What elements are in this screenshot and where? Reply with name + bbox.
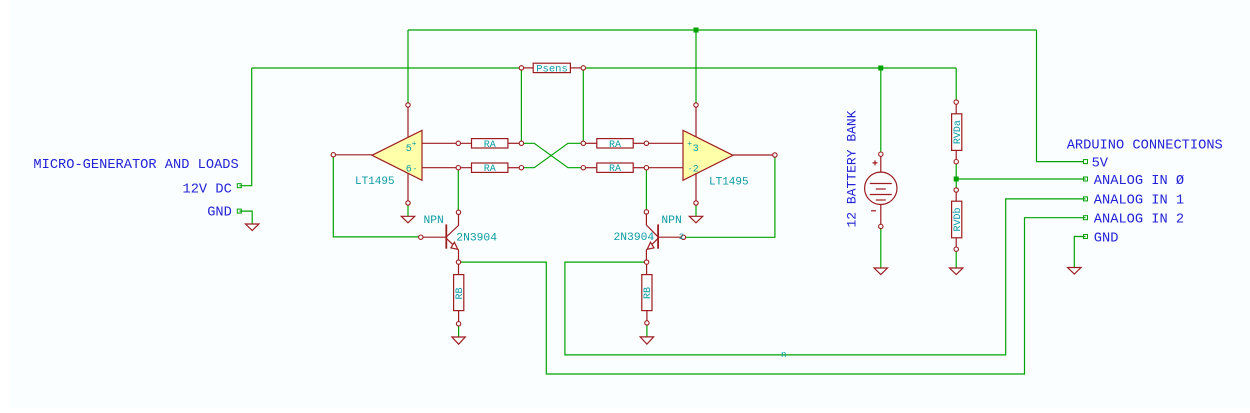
svg-text:RB: RB xyxy=(643,287,654,299)
svg-text:RA: RA xyxy=(484,164,496,175)
svg-text:LT1495: LT1495 xyxy=(355,176,395,188)
svg-text:MICRO-GENERATOR AND LOADS: MICRO-GENERATOR AND LOADS xyxy=(33,158,238,173)
svg-text:6: 6 xyxy=(406,165,412,176)
svg-text:Psens: Psens xyxy=(536,64,568,76)
svg-text:12V DC: 12V DC xyxy=(183,182,232,197)
svg-text:RA: RA xyxy=(609,164,621,175)
svg-text:NPN: NPN xyxy=(424,215,444,227)
svg-text:RVDb: RVDb xyxy=(952,207,964,231)
svg-text:+: + xyxy=(687,140,692,149)
svg-text:RVDa: RVDa xyxy=(953,120,964,144)
svg-text:GND: GND xyxy=(207,205,232,220)
svg-text:RA: RA xyxy=(484,140,496,151)
svg-text:RB: RB xyxy=(455,287,466,299)
svg-text:GND: GND xyxy=(1094,232,1119,247)
svg-text:3: 3 xyxy=(693,144,699,155)
svg-text:12 BATTERY BANK: 12 BATTERY BANK xyxy=(845,110,860,227)
svg-text:5V: 5V xyxy=(1092,157,1109,172)
svg-text:RA: RA xyxy=(609,140,621,151)
svg-text:2: 2 xyxy=(693,165,699,176)
svg-text:2: 2 xyxy=(679,232,684,242)
svg-text:n: n xyxy=(781,350,786,360)
svg-text:ANALOG IN Ø: ANALOG IN Ø xyxy=(1094,174,1184,189)
svg-text:ARDUINO CONNECTIONS: ARDUINO CONNECTIONS xyxy=(1067,139,1223,154)
svg-text:2N3904: 2N3904 xyxy=(614,232,655,244)
svg-text:ANALOG IN 2: ANALOG IN 2 xyxy=(1094,212,1184,227)
svg-text:2N3904: 2N3904 xyxy=(456,233,497,245)
svg-text:NPN: NPN xyxy=(661,215,681,227)
svg-text:LT1495: LT1495 xyxy=(709,176,749,188)
svg-text:ANALOG IN 1: ANALOG IN 1 xyxy=(1094,194,1184,209)
svg-text:+: + xyxy=(412,140,417,149)
svg-text:-: - xyxy=(413,165,418,174)
